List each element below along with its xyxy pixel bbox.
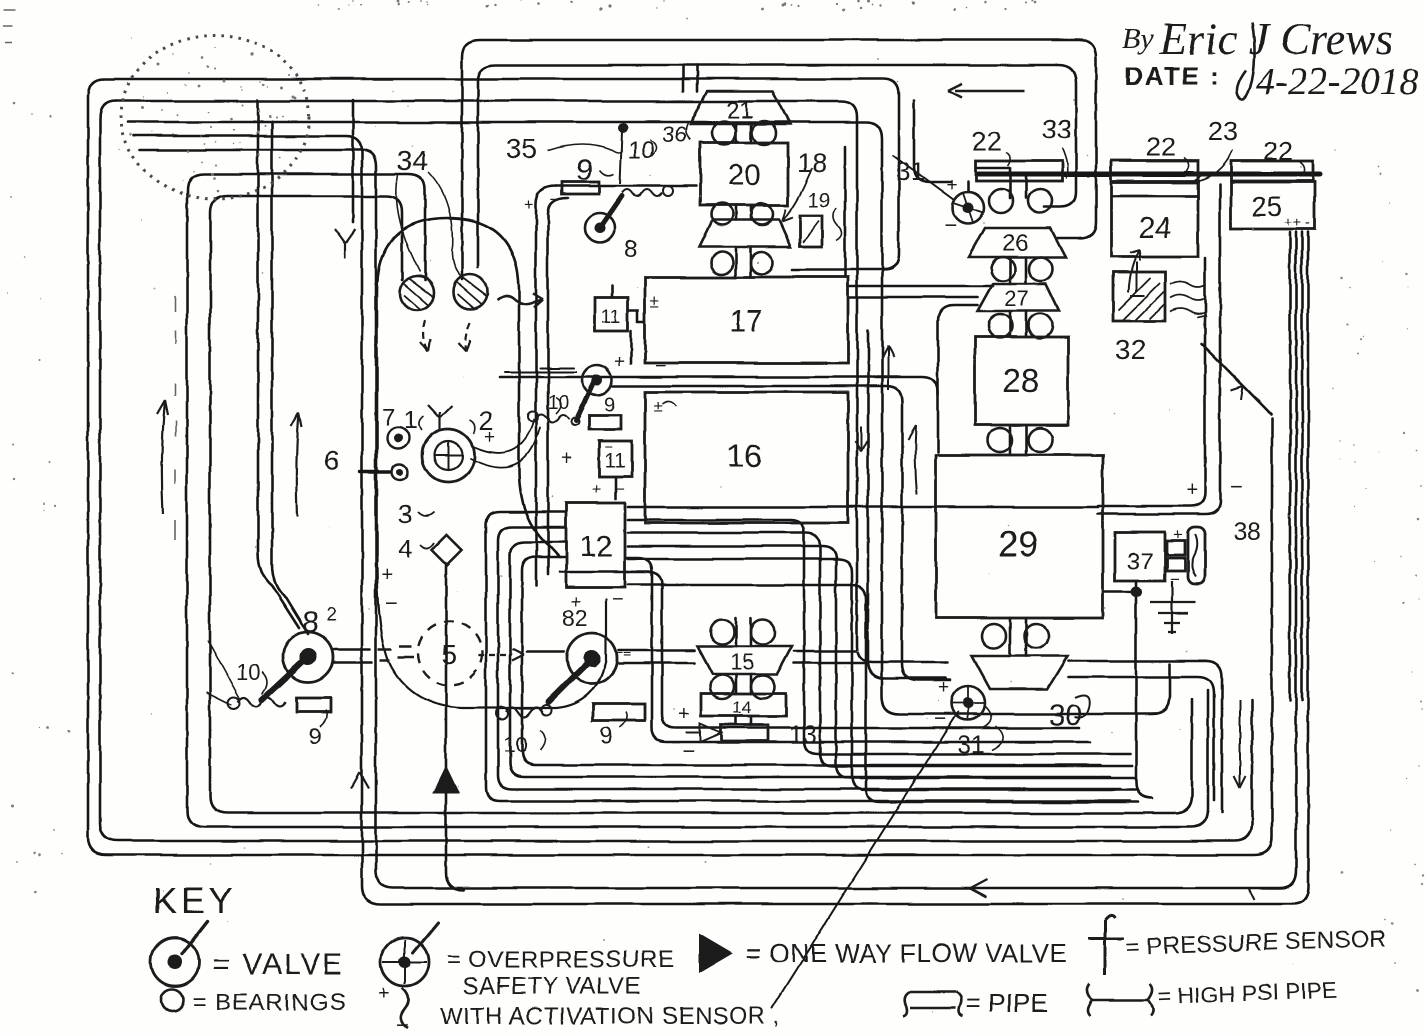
svg-text:12: 12 — [579, 530, 612, 563]
svg-text:−: − — [1170, 570, 1180, 589]
svg-text:13: 13 — [789, 721, 817, 749]
svg-text:−: − — [655, 356, 666, 377]
svg-text:−: − — [616, 481, 625, 498]
svg-text:= PIPE: = PIPE — [966, 988, 1048, 1018]
svg-text:±: ± — [653, 397, 662, 416]
svg-text:32: 32 — [1115, 334, 1146, 365]
svg-text:+: + — [524, 195, 534, 214]
svg-text:+: + — [561, 448, 572, 469]
svg-text:−: − — [944, 213, 957, 238]
svg-text:33: 33 — [1042, 114, 1072, 144]
svg-text:WITH ACTIVATION SENSOR ,: WITH ACTIVATION SENSOR , — [440, 1003, 780, 1030]
svg-text:Eric J Crews: Eric J Crews — [1159, 14, 1393, 64]
svg-text:−: − — [604, 439, 613, 456]
svg-text:+: + — [938, 677, 949, 698]
svg-text:+: + — [1173, 525, 1183, 544]
svg-text:27: 27 — [1005, 286, 1029, 311]
svg-text:−: − — [385, 591, 398, 616]
svg-text:35: 35 — [506, 133, 537, 164]
svg-text:10: 10 — [503, 732, 527, 757]
svg-text:24: 24 — [1138, 212, 1171, 245]
svg-text:31: 31 — [957, 731, 985, 759]
svg-text:37: 37 — [1127, 548, 1154, 575]
svg-text:+: + — [1186, 479, 1198, 501]
svg-text:10: 10 — [236, 660, 260, 685]
svg-text:17: 17 — [729, 305, 762, 338]
svg-text:7: 7 — [382, 404, 395, 431]
svg-text:−: − — [550, 190, 560, 209]
svg-text:3: 3 — [398, 499, 412, 529]
svg-text:9: 9 — [576, 152, 593, 187]
svg-text:+: + — [378, 983, 390, 1005]
svg-text:23: 23 — [1208, 116, 1238, 146]
svg-text:+: + — [946, 175, 957, 196]
svg-text:15: 15 — [730, 649, 754, 674]
svg-text:11: 11 — [601, 307, 621, 328]
svg-text:9: 9 — [600, 723, 613, 750]
svg-text:22: 22 — [1263, 136, 1293, 166]
svg-text:5: 5 — [441, 639, 457, 670]
svg-text:−: − — [396, 1012, 409, 1036]
svg-text:10: 10 — [548, 393, 569, 414]
svg-text:+: + — [678, 703, 690, 725]
svg-text:36: 36 — [662, 122, 686, 147]
svg-text:2: 2 — [326, 604, 337, 625]
svg-text:++ -: ++ - — [1284, 214, 1311, 231]
svg-text:30: 30 — [1049, 699, 1082, 732]
svg-text:4-22-2018: 4-22-2018 — [1256, 60, 1419, 103]
svg-text:34: 34 — [396, 145, 427, 176]
svg-text:−: − — [682, 738, 695, 763]
svg-text:6: 6 — [324, 445, 340, 476]
svg-text:8: 8 — [302, 606, 319, 639]
svg-text:By: By — [1122, 22, 1154, 55]
svg-text:31: 31 — [896, 156, 925, 186]
svg-text:28: 28 — [1003, 362, 1040, 399]
svg-text:−≡: −≡ — [615, 644, 631, 660]
svg-text:+: + — [484, 427, 495, 448]
svg-text:±: ± — [650, 292, 659, 311]
svg-text:SAFETY VALVE: SAFETY VALVE — [462, 973, 641, 1000]
svg-text:20: 20 — [727, 159, 760, 192]
svg-text:DATE :: DATE : — [1124, 61, 1221, 91]
svg-text:= VALVE: = VALVE — [212, 948, 344, 981]
svg-text:16: 16 — [726, 438, 762, 474]
svg-text:9: 9 — [308, 723, 321, 750]
svg-text:= BEARINGS: = BEARINGS — [192, 989, 347, 1016]
svg-text:KEY: KEY — [153, 880, 237, 921]
svg-text:9: 9 — [604, 394, 615, 416]
svg-text:21: 21 — [727, 97, 754, 124]
svg-text:+: + — [381, 564, 393, 586]
svg-text:+: + — [592, 481, 601, 498]
svg-text:29: 29 — [999, 525, 1038, 564]
svg-text:−: − — [934, 706, 947, 731]
svg-text:14: 14 — [733, 698, 752, 717]
svg-text:18: 18 — [797, 148, 827, 178]
svg-text:+: + — [571, 592, 582, 612]
svg-text:−: − — [612, 589, 624, 611]
svg-text:19: 19 — [808, 190, 830, 212]
svg-text:−: − — [1230, 474, 1243, 499]
svg-text:= OVERPRESSURE: = OVERPRESSURE — [447, 946, 675, 973]
svg-text:38: 38 — [1233, 518, 1261, 546]
svg-text:= ONE WAY FLOW VALVE: = ONE WAY FLOW VALVE — [746, 938, 1067, 968]
svg-text:10: 10 — [628, 137, 655, 164]
svg-text:1: 1 — [404, 406, 418, 434]
svg-text:4: 4 — [398, 534, 412, 564]
svg-text:22: 22 — [972, 126, 1002, 156]
svg-text:26: 26 — [1003, 230, 1030, 257]
svg-text:8: 8 — [624, 236, 637, 263]
svg-text:25: 25 — [1251, 191, 1282, 222]
svg-text:+: + — [614, 352, 625, 373]
svg-text:22: 22 — [1146, 132, 1176, 162]
